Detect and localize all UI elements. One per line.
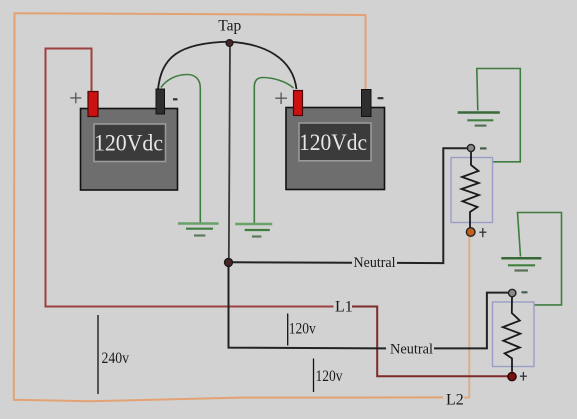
battery B1 plus sign [70,93,81,104]
svg-text:120v: 120v [289,321,316,338]
battery B1 minus sign [173,98,178,100]
battery B1 body [81,109,178,191]
wire black neutral node down then right (Neutral lower) [229,265,387,348]
resistor R2 plus sign [520,372,527,381]
node Tap [226,40,233,47]
resistor R1 plus sign [479,228,486,237]
wire black tap center line from Tap node down to neutral node [229,45,230,263]
label L2 [446,391,464,408]
wire green from resistor R1 box to ground G3 [477,69,521,162]
svg-text:120Vdc: 120Vdc [94,130,163,155]
svg-text:Tap: Tap [218,17,241,34]
resistor R1 positive terminal node [466,228,475,237]
wire black curve Tap to battery B1 negative terminal [158,42,230,90]
battery B2 body [286,108,385,190]
resistor R1 zigzag [462,152,480,229]
resistor R2 zigzag [503,297,521,372]
measurement line 120v upper [287,314,289,346]
resistor R1 box [451,158,493,223]
wire L2 orange loop from battery B2 negative terminal around left/bottom [14,13,443,401]
svg-text:240v: 240v [102,350,130,367]
wire green from resistor R2 box to ground G4 [518,213,562,305]
label L1 [335,299,353,316]
battery B1 negative terminal [156,89,165,114]
ground G2 [235,224,272,237]
resistor R2 box [493,302,535,367]
measurement line 120v lower [313,359,315,393]
wire black Neutral upper from node right [233,261,353,264]
ground G4 [501,258,541,270]
wire red from battery B1 positive terminal down left side to L1 [46,49,334,307]
resistor R1 minus sign [480,147,487,149]
measurement line 240v [97,315,99,394]
svg-text:L2: L2 [446,391,464,408]
battery B2 positive terminal [294,91,303,116]
resistor R2 positive terminal node [508,373,516,381]
label Neutral lower [390,342,433,358]
wire green from battery B1 negative terminal to ground G1 [161,75,200,223]
svg-text:120Vdc: 120Vdc [299,130,367,155]
svg-text:L1: L1 [335,299,353,316]
node Neutral junction [225,258,233,266]
wire orange segment from L2 label up to resistor R1 positive terminal [464,237,469,398]
svg-text:Neutral: Neutral [390,342,433,358]
resistor R2 negative terminal node [509,289,516,296]
ground G3 [458,113,500,126]
svg-text:120v: 120v [316,368,343,385]
label 120v lower [316,368,343,385]
label 120v upper [289,321,316,338]
battery B2 minus sign [378,97,384,99]
battery B1 label plate 120Vdc [94,124,166,162]
wire black curve Tap to battery B2 positive terminal [230,42,297,89]
label 240v [102,350,130,367]
wire black Neutral upper continuation to resistor R1 negative terminal [397,148,467,263]
battery B2 plus sign [275,93,287,105]
battery B1 positive terminal [88,92,98,117]
wire black Neutral lower continuation to resistor R2 negative terminal [434,293,508,349]
resistor R2 minus sign [522,291,528,293]
resistor R1 negative terminal node [467,144,474,151]
svg-text:Neutral: Neutral [354,255,396,271]
wire red L1 continuation to resistor R2 positive terminal [352,307,508,377]
battery B2 negative terminal [362,90,372,117]
label Tap [218,17,241,34]
ground G1 [178,224,219,236]
label Neutral upper [354,255,396,271]
battery B2 label plate 120Vdc [299,123,371,161]
wire green from battery B2 positive terminal to ground G2 [254,78,293,224]
